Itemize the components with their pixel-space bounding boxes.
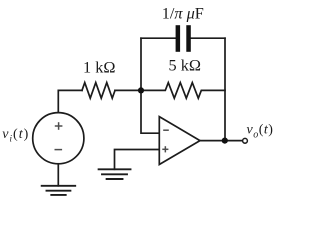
wire source top to R1 [58, 90, 82, 112]
wire source bottom [57, 164, 59, 186]
source minus symbol [55, 149, 63, 151]
capacitor C1 plates [176, 25, 191, 52]
wire cap top left [141, 37, 176, 39]
ground source [42, 186, 75, 195]
wire op-amp plus input and drop to ground [115, 150, 160, 170]
wire output [200, 140, 242, 142]
op-amp plus symbol [162, 146, 168, 152]
svg-text:1 kΩ: 1 kΩ [83, 57, 115, 76]
source plus symbol [55, 122, 63, 130]
svg-text:vi(t): vi(t) [2, 127, 29, 144]
wire cap top right [191, 37, 225, 39]
node A junction dot [138, 87, 144, 93]
op-amp U1 [159, 117, 200, 165]
node output junction dot [222, 138, 228, 144]
svg-text:1/π μF: 1/π μF [162, 3, 204, 22]
svg-text:5 kΩ: 5 kΩ [169, 56, 201, 75]
wire feedback left vertical [141, 38, 159, 133]
ground op-amp [99, 169, 131, 179]
op-amp minus symbol [163, 129, 169, 131]
wire feedback right vertical [224, 38, 226, 140]
resistor R2 [141, 83, 225, 99]
wire R1 to node A [115, 89, 141, 91]
source Vi circle [33, 113, 84, 164]
terminal vo open circle [243, 138, 248, 143]
resistor R1 [82, 83, 115, 99]
